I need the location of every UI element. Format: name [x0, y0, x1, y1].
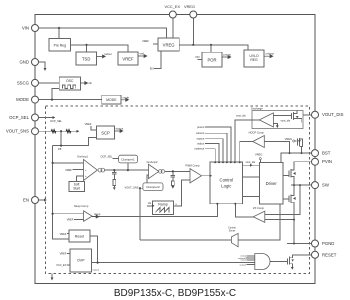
svg-text:porout: porout — [224, 53, 232, 57]
svg-text:VREF: VREF — [67, 218, 74, 222]
svg-text:ZX Comp: ZX Comp — [253, 206, 265, 210]
svg-text:VREF: VREF — [122, 56, 134, 61]
svg-text:Clamper1: Clamper1 — [121, 157, 135, 161]
svg-text:SCP: SCP — [101, 130, 110, 135]
svg-text:vref: vref — [140, 52, 145, 56]
svg-text:OCP_SEL: OCP_SEL — [101, 155, 114, 159]
svg-text:GmAmp2: GmAmp2 — [147, 160, 159, 164]
svg-text:MODE: MODE — [16, 97, 29, 102]
svg-text:VREG: VREG — [184, 4, 195, 9]
svg-text:VIN: VIN — [195, 55, 199, 59]
svg-text:vout_dis: vout_dis — [281, 119, 291, 123]
svg-text:VREF: VREF — [85, 122, 92, 126]
svg-text:HOCP Comp: HOCP Comp — [249, 131, 265, 135]
svg-text:VREF: VREF — [60, 232, 67, 236]
svg-text:FB: FB — [58, 147, 62, 151]
svg-text:BST: BST — [322, 151, 331, 156]
svg-text:Discharge: Discharge — [251, 107, 263, 111]
svg-text:Current: Current — [228, 227, 236, 230]
svg-text:VOUT_SNS: VOUT_SNS — [125, 185, 139, 189]
svg-text:VREG: VREG — [285, 137, 292, 141]
svg-text:VREF: VREF — [142, 39, 149, 43]
svg-text:MODE: MODE — [106, 98, 117, 102]
svg-text:modeout: modeout — [194, 147, 204, 151]
svg-text:GND: GND — [19, 60, 29, 65]
svg-text:Sleep Comp: Sleep Comp — [74, 204, 89, 208]
svg-text:-: - — [85, 161, 86, 165]
svg-text:OCP_SEL: OCP_SEL — [50, 119, 63, 123]
svg-text:mode: mode — [123, 95, 130, 99]
svg-text:ovpout: ovpout — [93, 269, 100, 272]
svg-text:vout_dis: vout_dis — [246, 160, 256, 164]
svg-text:PVIN: PVIN — [322, 159, 332, 164]
svg-text:vout_dis: vout_dis — [236, 114, 246, 118]
svg-text:PWM Comp: PWM Comp — [186, 164, 201, 168]
svg-text:Pre Reg: Pre Reg — [54, 44, 67, 48]
svg-text:Control: Control — [220, 178, 234, 183]
svg-text:tsdout: tsdout — [197, 142, 204, 146]
svg-text:tsdout: tsdout — [105, 52, 112, 56]
svg-text:uvloout: uvloout — [266, 52, 275, 56]
svg-text:POR: POR — [207, 57, 216, 62]
svg-text:EN: EN — [150, 66, 154, 70]
svg-text:Driver: Driver — [266, 181, 278, 186]
svg-text:scpout: scpout — [240, 263, 247, 266]
svg-text:VREG: VREG — [255, 153, 262, 157]
svg-text:VCC_EX: VCC_EX — [56, 263, 67, 267]
svg-text:PGND: PGND — [322, 241, 334, 246]
svg-text:BD9P135x-C, BD9P155x-C: BD9P135x-C, BD9P155x-C — [114, 288, 236, 299]
svg-text:sleep: sleep — [94, 212, 101, 216]
svg-text:EN: EN — [23, 198, 29, 203]
svg-text:VREF: VREF — [60, 252, 67, 256]
svg-text:TSD: TSD — [82, 56, 90, 61]
svg-text:Logic: Logic — [221, 184, 231, 189]
svg-text:VREF: VREF — [65, 168, 72, 172]
svg-text:Reset: Reset — [75, 235, 84, 239]
svg-text:OSC: OSC — [66, 79, 74, 83]
svg-text:VIN: VIN — [22, 26, 29, 31]
svg-text:SW: SW — [322, 183, 330, 188]
svg-text:uvloout: uvloout — [196, 131, 205, 135]
svg-text:scpout: scpout — [116, 127, 124, 131]
svg-text:porout: porout — [197, 125, 205, 129]
svg-text:VOUT_DIS: VOUT_DIS — [322, 112, 344, 117]
svg-text:VCC_EX: VCC_EX — [165, 4, 181, 9]
svg-text:scpout: scpout — [197, 137, 205, 141]
svg-text:GmAmp1: GmAmp1 — [77, 154, 89, 158]
svg-text:Sense: Sense — [229, 230, 236, 232]
svg-text:RESET: RESET — [322, 252, 337, 257]
svg-text:SSCG: SSCG — [17, 80, 30, 85]
svg-text:REG: REG — [250, 58, 258, 62]
svg-text:VREG: VREG — [163, 42, 175, 47]
svg-text:rstout: rstout — [241, 259, 247, 262]
svg-text:OCP_SEL: OCP_SEL — [9, 115, 29, 120]
svg-text:Ramp: Ramp — [158, 203, 168, 207]
svg-text:OVP: OVP — [77, 259, 85, 263]
svg-text:Start: Start — [73, 187, 80, 191]
svg-text:Clamper2: Clamper2 — [146, 185, 160, 189]
svg-text:VOUT_SNS: VOUT_SNS — [6, 129, 29, 134]
